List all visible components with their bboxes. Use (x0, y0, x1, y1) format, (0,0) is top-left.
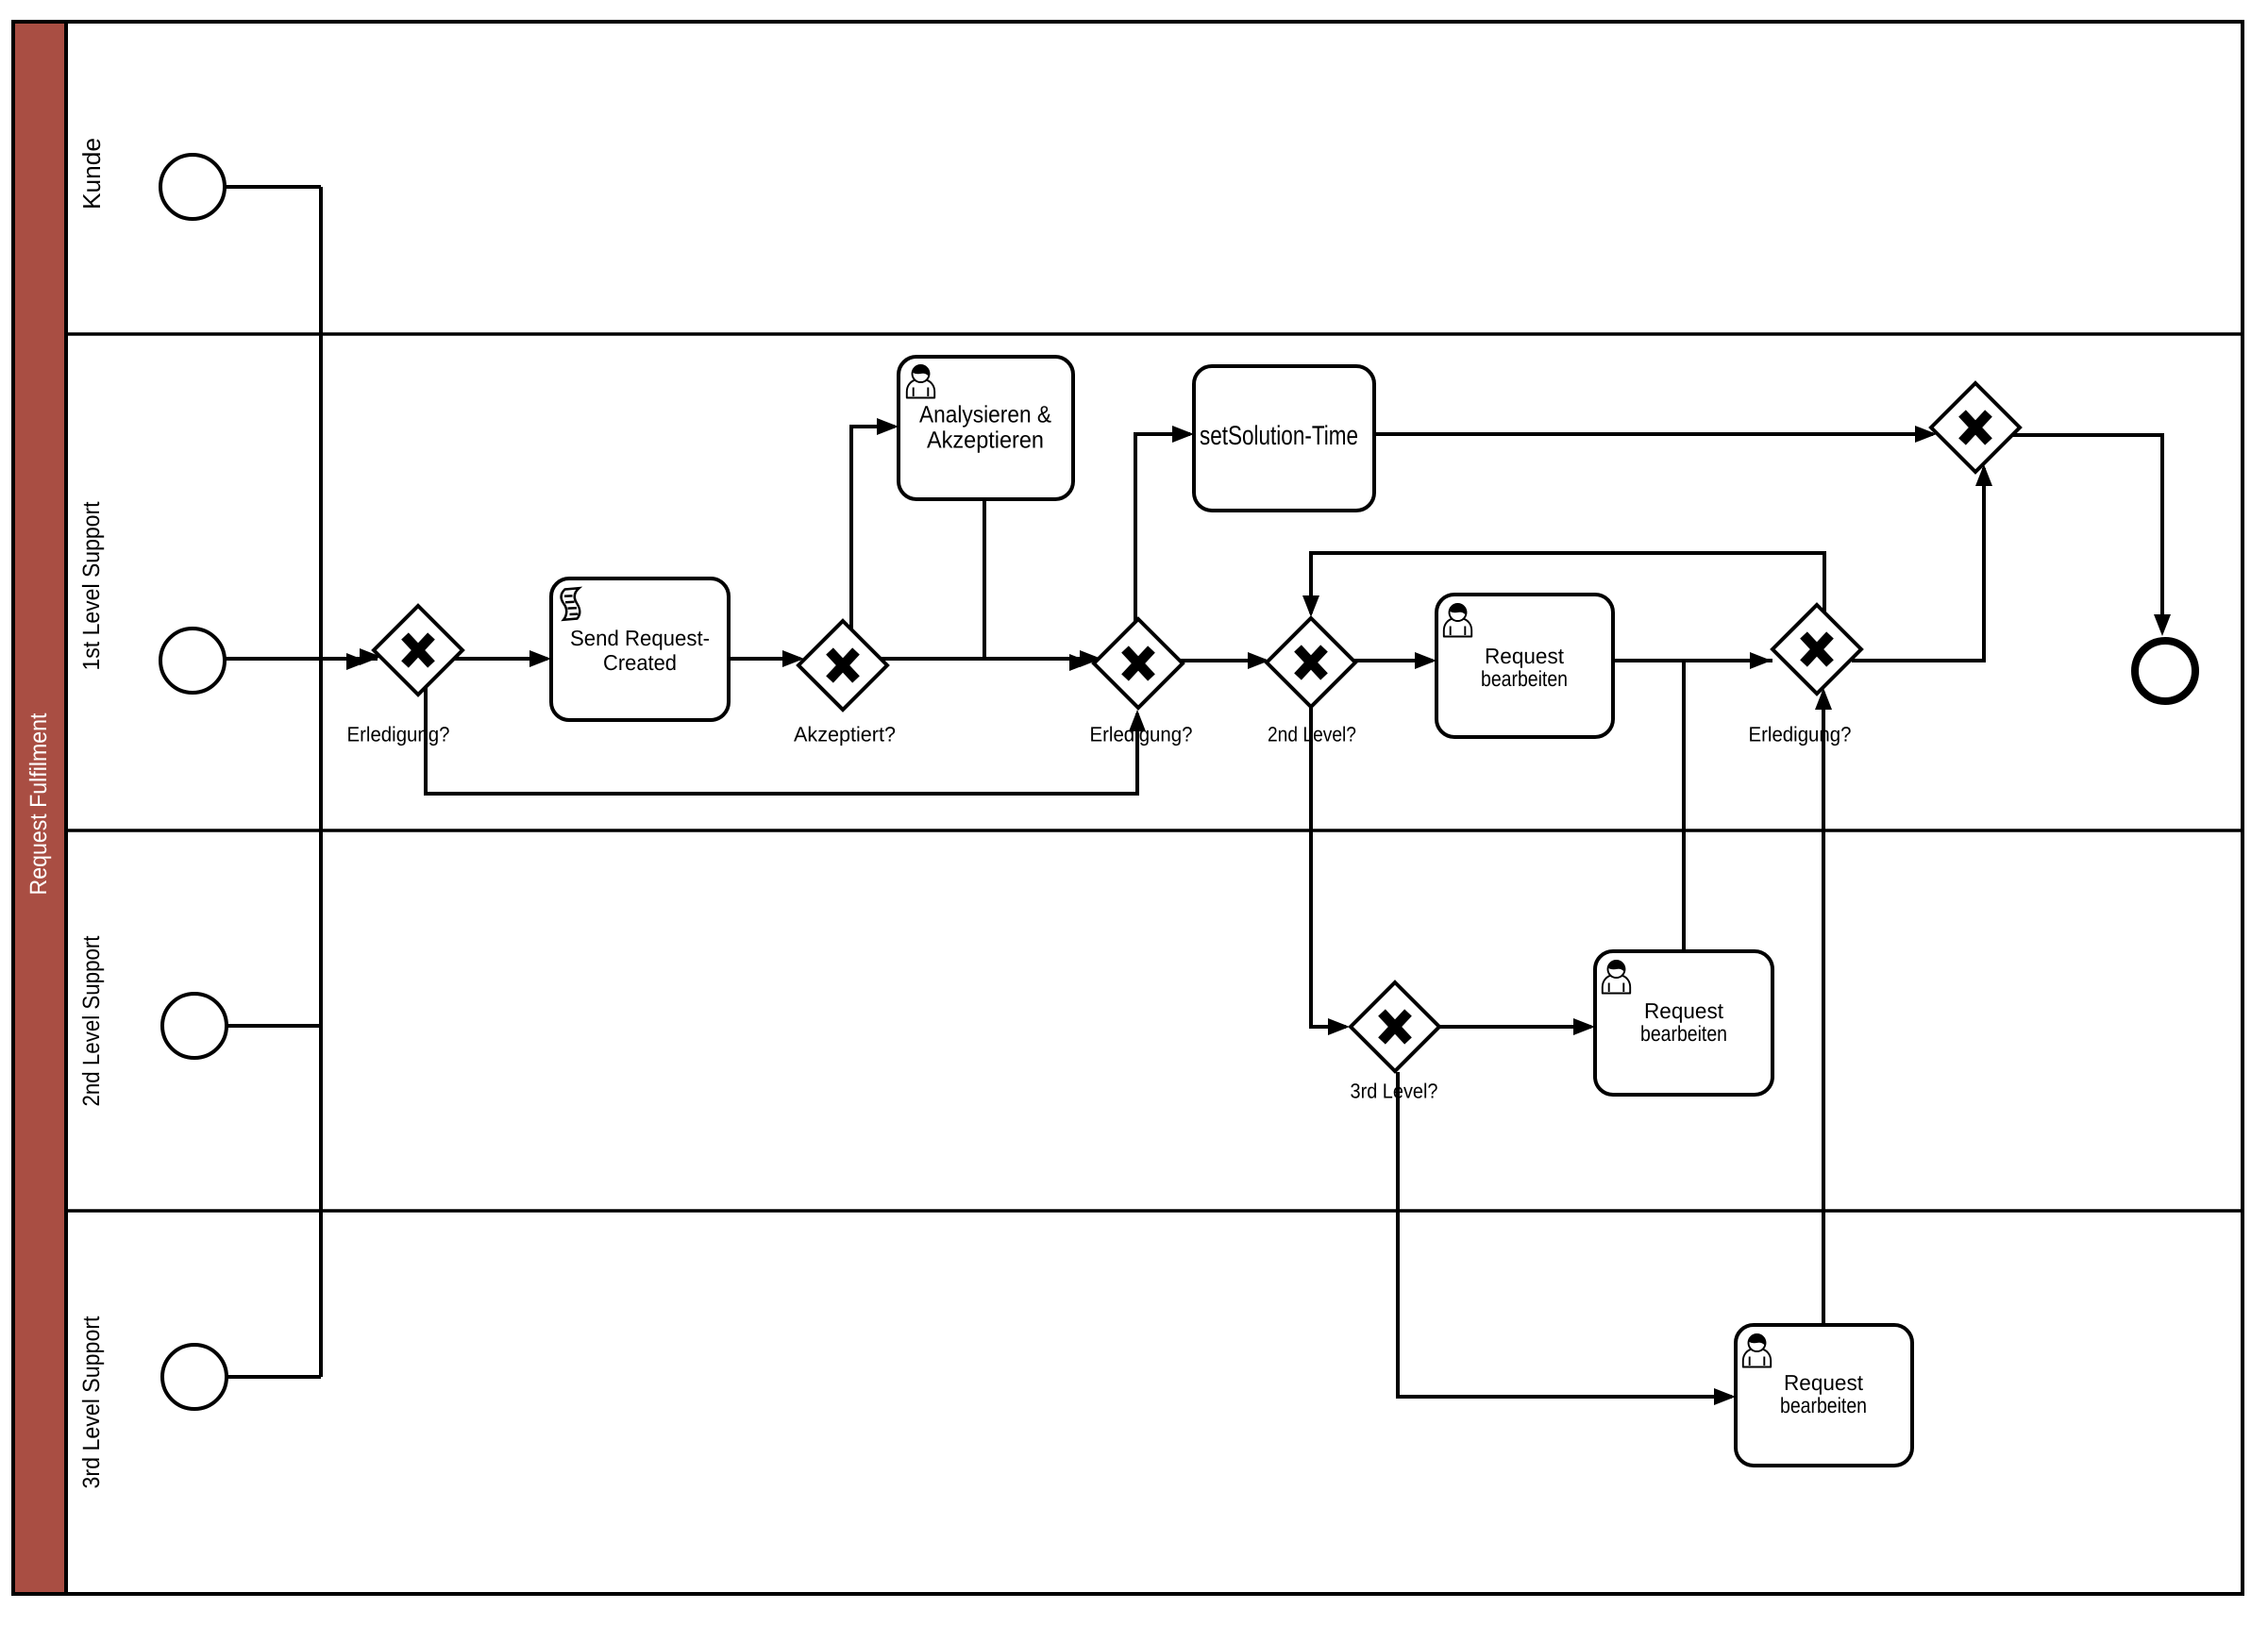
start event 3rd Level (162, 1345, 227, 1409)
wire G3 to G4 (1180, 659, 1266, 662)
svg-text:Akzeptiert?: Akzeptiert? (794, 723, 896, 746)
wire G2 top to task Analysieren (851, 427, 895, 630)
wire G5 right up to G6 bottom (1852, 468, 1984, 661)
script icon of task Send Request-Created (562, 588, 580, 620)
svg-text:bearbeiten: bearbeiten (1481, 666, 1568, 691)
svg-text:Request: Request (1644, 998, 1724, 1023)
arrowhead into G5 left (1750, 652, 1772, 669)
svg-text:3rd Level Support: 3rd Level Support (78, 1316, 105, 1488)
gateway G3 Erledigung? (1094, 619, 1183, 708)
arrowhead into task Request bearbeiten 2nd (1573, 1018, 1595, 1035)
wire task Send Request-Created to G2 (729, 657, 800, 661)
wire start 3rd Level to collector (227, 1375, 321, 1379)
arrowhead into G7 left (1328, 1018, 1350, 1035)
task Request bearbeiten 2nd Level (1595, 951, 1772, 1095)
end event (2135, 641, 2195, 701)
lane 1st Level Support (66, 501, 2243, 830)
wire collector vertical (319, 187, 323, 1377)
wire loop G5 top to G4 top (1311, 553, 1824, 613)
svg-text:Request: Request (1485, 644, 1565, 668)
wire task Analysieren bottom to G3 (984, 499, 1094, 659)
user icon of task Request bearbeiten 2nd Level (1603, 961, 1630, 994)
arrowhead into G5 bottom (1815, 688, 1832, 710)
wire start 1st Level to gateway G1 (225, 657, 378, 661)
wire loop G1 bottom to G3 bottom (426, 687, 1137, 794)
arrowhead into G4 left (1248, 652, 1269, 669)
start event 2nd Level (162, 994, 227, 1058)
svg-text:Kunde: Kunde (77, 138, 106, 210)
gateway G1 Erledigung? (374, 606, 462, 695)
arrowhead into task Request bearbeiten 1st (1415, 652, 1436, 669)
arrowhead into task Analysieren (877, 418, 899, 435)
start event Kunde (160, 155, 225, 219)
arrowhead into G3 bottom (1129, 710, 1146, 731)
svg-text:bearbeiten: bearbeiten (1780, 1393, 1867, 1417)
arrowhead into task setSolution-Time (1172, 426, 1194, 443)
lane Kunde (66, 138, 2243, 334)
arrowhead into G4 top (1302, 595, 1319, 617)
wire G7 bottom down to task Request bearbeiten 3rd (1398, 1072, 1732, 1397)
wire G4 bottom to G7 (1311, 708, 1346, 1027)
svg-text:Created: Created (603, 650, 677, 675)
arrowhead into G6 left (1915, 426, 1937, 443)
gateway G6 (1931, 383, 2020, 472)
task Analysieren & Akzeptieren (899, 357, 1073, 499)
arrowhead into G3 (double) (1080, 650, 1101, 667)
arrowhead into task Request bearbeiten 3rd (1714, 1388, 1736, 1405)
wire G4 to task Request bearbeiten 1st (1353, 659, 1433, 662)
svg-text:Analysieren &: Analysieren & (919, 402, 1051, 428)
wire start Kunde to collector (225, 185, 321, 189)
start event 1st Level (160, 629, 225, 693)
wire G7 to task Request bearbeiten 2nd (1439, 1025, 1591, 1029)
svg-text:3rd Level?: 3rd Level? (1351, 1080, 1438, 1103)
arrowhead into G6 bottom (1975, 464, 1992, 486)
gateway G2 Akzeptiert? (798, 621, 887, 710)
gateway G4 2nd Level? (1267, 618, 1355, 707)
svg-text:Request: Request (1784, 1370, 1864, 1395)
task Send Request-Created (551, 578, 729, 720)
arrowhead into G1 (double) (360, 648, 381, 665)
user icon of task Request bearbeiten 3rd Level (1743, 1334, 1771, 1367)
user icon of task Request bearbeiten 1st Level (1444, 604, 1471, 637)
wire G1 to task Send Request-Created (453, 657, 547, 661)
user icon of task Analysieren & Akzeptieren (907, 365, 934, 398)
arrowhead into end event (2154, 614, 2171, 636)
task Request bearbeiten 3rd Level (1736, 1325, 1912, 1466)
wire task Request bearbeiten 1st to G5 (1613, 659, 1772, 662)
arrowhead into G2 (782, 650, 804, 667)
wire task Request bearbeiten 2nd top joining flow to G5 (1682, 661, 1686, 951)
arrowhead into task Send Request-Created (529, 650, 551, 667)
svg-text:1st Level Support: 1st Level Support (78, 501, 105, 670)
lane 3rd Level Support (78, 1316, 105, 1488)
svg-text:Request Fulfilment: Request Fulfilment (25, 712, 52, 895)
svg-text:setSolution-Time: setSolution-Time (1200, 421, 1358, 451)
gateway G5 Erledigung? (1772, 605, 1861, 694)
wire start 2nd Level to collector (227, 1024, 321, 1028)
svg-text:Akzeptieren: Akzeptieren (927, 427, 1044, 454)
wire task setSolution-Time to G6 (1374, 432, 1933, 436)
svg-text:Erledigung?: Erledigung? (1749, 723, 1852, 746)
task setSolution-Time (1194, 366, 1374, 511)
wire G6 right down to end event (2012, 435, 2162, 619)
task Request bearbeiten 1st Level (1436, 595, 1613, 737)
wire task Request bearbeiten 3rd top up to G5 bottom (1822, 692, 1825, 1325)
svg-text:2nd Level Support: 2nd Level Support (78, 935, 105, 1106)
svg-text:Erledigung?: Erledigung? (347, 723, 450, 746)
svg-text:bearbeiten: bearbeiten (1640, 1021, 1727, 1046)
lane 2nd Level Support (66, 935, 2243, 1211)
wire G2 to G3 (882, 657, 1094, 661)
svg-text:Send Request-: Send Request- (570, 626, 710, 650)
gateway G7 3rd Level? (1351, 982, 1439, 1071)
wire G3 top to task setSolution-Time (1135, 434, 1190, 623)
